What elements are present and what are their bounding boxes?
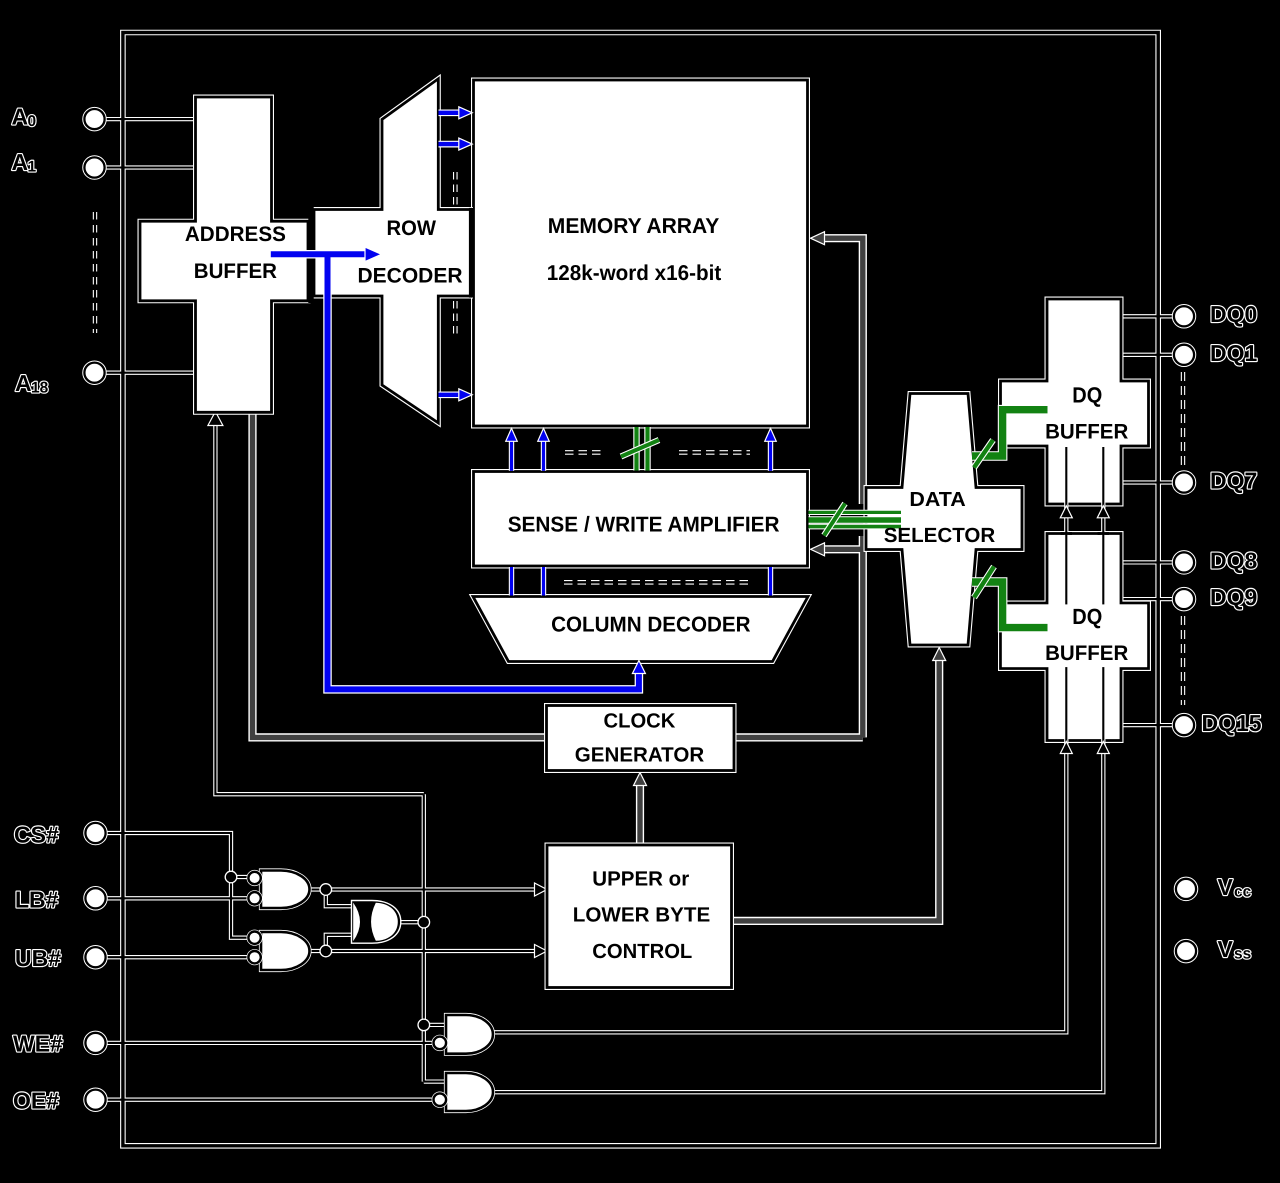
NAND U1 input bubble top [248,872,260,884]
sense / write amplifier block [474,472,808,567]
svg-text:WE#: WE# [13,1031,63,1057]
chip boundary rectangle [123,33,1158,1146]
NAND U2 input bubble bottom [248,951,260,963]
black seam between row decoder text box and memory array [469,208,474,298]
pin A1 [84,157,104,177]
label DQ7 [1210,468,1257,494]
black seam between address buffer and row decoder crosses [308,206,313,303]
svg-text:DATA: DATA [909,489,966,511]
svg-text:DQ15: DQ15 [1202,710,1262,736]
white cover over lower DQ buffer text band [1002,604,1147,667]
text 128k-word x16-bit [547,261,721,285]
svg-text:1: 1 [28,159,37,176]
green data bus sense amp to data selector (line 3) [809,524,902,530]
arrowhead into clock generator bottom [634,773,647,786]
blue arrowhead into memory array at y=112.8 [459,107,473,119]
svg-text:DQ7: DQ7 [1210,468,1257,494]
green bus memory array to sense amp (line 2) [644,427,650,471]
arrowhead into byte control (lower) [535,945,548,958]
NAND U1 input bubble bottom [248,892,260,904]
AND gate U5 (OE#) body [446,1073,493,1111]
text UPPER or [592,867,689,890]
wire: OE# pin to AND gate input [104,1099,434,1101]
text SENSE / WRITE AMPLIFIER [508,512,780,536]
AND gate U4 (WE#) body [446,1015,493,1054]
pin DQ15 [1174,715,1194,735]
wire: XOR output trunk net [215,425,447,1082]
label A1 [12,149,37,176]
svg-text:18: 18 [31,380,49,397]
pin DQ1 [1174,345,1194,365]
NAND gate U1 (CS#/LB#) body [261,871,310,909]
wire: WE gate output run [493,447,1066,1032]
text DQ (upper) [1072,382,1102,407]
svg-text:CS#: CS# [14,822,59,848]
wire: A1 pin to address buffer [104,166,196,168]
svg-text:cc: cc [1234,884,1252,901]
green data bus sense amp to data selector (line 2) [809,516,902,523]
wire: DQ9 stub [1122,598,1175,600]
pin DQ7 [1174,472,1194,492]
address buffer block (cross shape) [140,97,308,412]
border patch at lower DQ buffer top edge (OE line crossing) [1098,532,1110,535]
arrowhead WE line into upper DQ buffer [1060,506,1072,518]
text DECODER (row) [358,265,463,288]
text CLOCK [604,709,676,732]
label DQ8 [1210,548,1258,574]
svg-text:A: A [15,370,32,396]
svg-text:DQ: DQ [1072,604,1102,629]
green data bus sense amp to data selector (line 1) [809,510,902,515]
blue arrowhead into memory array bottom at x=543.5 [538,428,550,441]
junction dot NAND1 output [320,884,332,896]
green bus width slash (lower DQ bus) [974,567,994,598]
green bus memory array to sense amp (line 1) [633,427,639,471]
AND U5 input bubble (OE#) [434,1093,447,1106]
junction dot WE gate input [418,1019,430,1031]
row decoder block (trapezoid cross) [314,79,471,423]
blue row line at y=394.8 [439,391,460,398]
svg-text:SENSE / WRITE AMPLIFIER: SENSE / WRITE AMPLIFIER [508,512,780,536]
svg-text:COLUMN DECODER: COLUMN DECODER [551,613,751,637]
svg-text:CLOCK: CLOCK [604,709,676,732]
XOR gate U3 silhouette [352,901,401,944]
svg-text:LOWER BYTE: LOWER BYTE [573,903,711,926]
svg-text:ADDRESS: ADDRESS [185,223,286,246]
arrowhead into data selector bottom [933,648,946,661]
blue row line at y=112.8 [439,109,460,116]
svg-text:UB#: UB# [15,945,61,971]
dashed continuation row decoder upper [453,172,458,205]
label DQ0 [1210,301,1257,327]
upper/lower byte control block [547,845,732,988]
wire: OE gate output run [493,447,1103,1092]
svg-text:DQ: DQ [1072,382,1102,407]
text DQ (lower) [1072,604,1102,629]
blue address bus from address buffer [271,254,639,689]
svg-text:ss: ss [1234,946,1251,963]
svg-text:BUFFER: BUFFER [194,260,277,283]
pin DQ0 [1174,306,1194,326]
svg-text:DQ9: DQ9 [1210,584,1257,610]
svg-text:0: 0 [28,113,37,130]
svg-text:128k-word x16-bit: 128k-word x16-bit [547,261,721,285]
text CONTROL [592,940,692,963]
text MEMORY ARRAY [548,214,720,238]
label OE# [13,1088,59,1114]
memory array block [474,80,808,426]
blue bit line up at x=511.5 [509,441,514,471]
pin LB# [85,888,105,908]
dashed continuation row decoder lower [453,301,458,334]
blue arrowhead into column decoder [632,661,645,674]
text ADDRESS [185,223,286,246]
wire: DQ8 stub [1122,561,1175,563]
arrowhead into sense/write amplifier right side [811,543,825,556]
pin WE# [85,1033,105,1053]
label UB# [15,945,61,971]
wire: A0 pin to address buffer [104,118,196,120]
svg-text:V: V [1218,936,1234,962]
svg-text:A: A [12,149,29,175]
label A18 [15,370,49,397]
junction dot CS# branch [225,871,237,883]
blue bit line column decoder at x=511.5 [509,567,514,596]
label CS# [14,822,59,848]
svg-text:BUFFER: BUFFER [1045,642,1128,665]
svg-text:BUFFER: BUFFER [1045,421,1128,444]
dashed bus continuation above sense amp (left) [565,450,604,455]
wire: LB# pin to NAND input [104,897,249,899]
svg-text:V: V [1218,874,1234,900]
NAND gate U2 (CS#/UB#) body [261,932,310,970]
label LB# [15,887,59,913]
blue arrowhead into row decoder [365,247,382,261]
wire: DQ0 stub [1122,315,1175,317]
wire: CS# pin net [104,833,249,938]
wire: NAND1 output net [310,890,538,907]
junction dot NAND2 output [320,945,332,957]
text LOWER BYTE [573,903,711,926]
text SELECTOR [884,524,996,547]
dashed bus continuation below sense amp [564,580,753,585]
svg-text:DQ0: DQ0 [1210,301,1257,327]
XOR gate U3 rear lens [353,903,360,942]
DQ buffer block (upper) [1001,299,1149,504]
wire: WE# pin to AND gate input [104,1042,434,1044]
text DATA [909,489,966,511]
blue bit line up at x=543.5 [541,441,546,471]
black wire outline underlay [104,33,1175,1146]
blue arrowhead into memory array bottom at x=511.5 [506,428,518,441]
svg-text:ROW: ROW [387,217,437,240]
pin DQ8 [1174,552,1194,572]
pin Vcc [1176,879,1196,899]
svg-text:CONTROL: CONTROL [592,940,692,963]
dashed bus continuation above sense amp (right) [679,450,750,455]
svg-text:GENERATOR: GENERATOR [575,743,705,766]
wire: NAND2 output net [310,935,538,951]
svg-text:A: A [12,104,29,130]
svg-text:OE#: OE# [13,1088,59,1114]
blue bit line column decoder at x=770.5 [768,567,773,596]
blue arrowhead into memory array at y=144.1 [459,138,473,150]
AND U4 input bubble (WE#) [434,1037,447,1050]
XOR gate U3 main body [371,903,398,941]
text BUFFER (upper) [1045,421,1128,444]
pin DQ9 [1174,589,1194,609]
svg-text:UPPER or: UPPER or [592,867,689,890]
text BUFFER (lower) [1045,642,1128,665]
green bus width slash (upper DQ bus) [974,440,993,468]
blue row line at y=144.1 [439,141,460,148]
text BUFFER (address) [194,260,277,283]
DQ buffer block (lower) [1001,534,1149,741]
dashed continuation address pins [93,212,97,333]
label A0 [12,104,37,131]
blue bit line up at x=770.5 [768,441,773,471]
green bus width slash (vertical bus) [621,440,659,457]
wire: clock distribution net (gray) [253,238,863,737]
blue arrowhead into memory array at y=394.8 [459,389,473,401]
svg-text:SELECTOR: SELECTOR [884,524,996,547]
svg-text:DECODER: DECODER [358,265,463,288]
text COLUMN DECODER [551,613,751,637]
text GENERATOR [575,743,705,766]
pin Vss [1176,941,1196,961]
arrowhead into memory array right side [811,232,825,245]
wire: A18 pin to address buffer [104,372,196,374]
border patch at lower DQ buffer top edge (WE line crossing) [1061,532,1073,535]
blue arrowhead into memory array bottom at x=770.5 [765,428,777,441]
dashed continuation DQ9-DQ15 [1181,616,1185,705]
pin CS# [85,823,105,843]
pin UB# [85,947,105,967]
svg-text:DQ8: DQ8 [1210,548,1258,574]
wire: DQ1 stub [1122,354,1175,356]
green bus data selector to lower DQ buffer [972,582,1048,628]
pin OE# [85,1090,105,1110]
data selector block [866,394,1022,646]
label DQ9 [1210,584,1257,610]
blue bit line column decoder at x=543.5 [541,567,546,596]
arrowhead OE line into lower DQ buffer [1097,742,1109,754]
wire: DQ15 stub [1122,724,1175,726]
wire: UB# pin to NAND input [104,956,249,958]
arrowhead WE line into lower DQ buffer [1060,742,1072,754]
pin A0 [84,109,104,129]
label Vss [1218,936,1252,963]
pin A18 [84,363,104,383]
dashed continuation DQ0-DQ7 [1181,372,1185,466]
green bus data selector to upper DQ buffer [972,410,1048,456]
svg-text:MEMORY ARRAY: MEMORY ARRAY [548,214,720,238]
arrowhead OE line into upper DQ buffer [1097,506,1109,518]
svg-text:DQ1: DQ1 [1210,340,1258,366]
green bus width slash (sense amp bus) [824,504,845,536]
label Vcc [1218,874,1252,901]
wire: DQ7 stub [1122,481,1175,483]
wire: byte control to data selector [733,658,939,921]
NAND U2 input bubble top [248,932,260,944]
label WE# [13,1031,63,1057]
svg-text:LB#: LB# [15,887,59,913]
arrowhead into byte control (upper) [535,883,548,896]
text ROW [387,217,437,240]
label DQ15 [1202,710,1262,736]
junction dot XOR output [418,916,430,928]
arrowhead into address buffer bottom [208,412,223,426]
column decoder block [473,597,808,662]
wire: byte control to clock generator [636,783,644,845]
clock generator block [547,706,735,771]
label DQ1 [1210,340,1258,366]
